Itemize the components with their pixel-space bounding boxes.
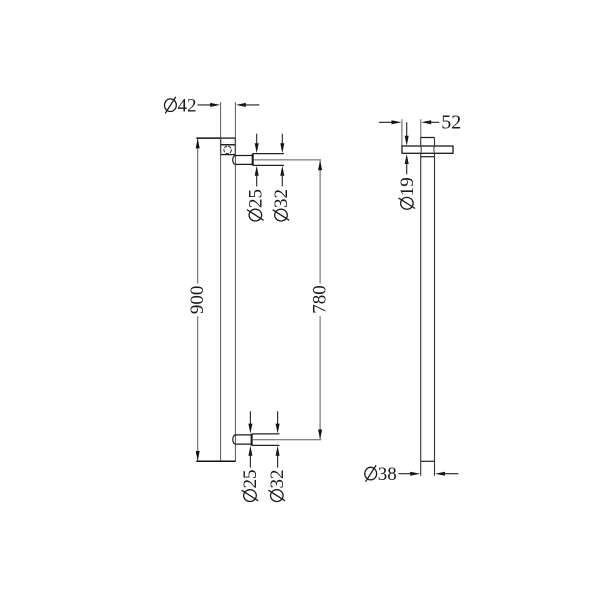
svg-text:38: 38 — [378, 464, 397, 485]
wall plate flange rectangle — [221, 138, 236, 145]
dimension 780 down arrowhead — [318, 430, 322, 440]
top arm phi25 top edge — [235, 155, 252, 157]
bottom arm phi25 down arrowhead — [248, 424, 252, 434]
900 top extension line — [196, 137, 220, 139]
bottom arm phi32 down arrow shaft — [277, 411, 279, 428]
bottom arm phi32 bottom edge — [252, 444, 280, 446]
bottom arm centre line / 780 bottom extension — [252, 439, 322, 441]
top arm rounded end cap — [233, 156, 236, 165]
svg-text:25: 25 — [240, 470, 261, 489]
bar-arm intersection arc right — [433, 146, 436, 153]
mounting arm outline — [402, 146, 453, 153]
svg-text:780: 780 — [310, 285, 331, 314]
dimension phi42 left arrowhead — [210, 103, 220, 107]
top arm phi25 up arrow shaft — [256, 172, 258, 187]
dimension 900 up arrowhead — [196, 138, 200, 148]
dimension phi42 left extension line — [220, 102, 222, 138]
rail right edge — [234, 138, 236, 461]
phi19 down arrowhead — [405, 136, 409, 146]
phi19 down arrow shaft — [406, 122, 408, 140]
dimension 780 up arrowhead — [318, 160, 322, 170]
bottom arm rounded end cap — [233, 435, 236, 444]
top arm phi32 down arrowhead — [280, 143, 284, 153]
phi19 label — [397, 177, 418, 209]
dimension 900 down arrowhead — [196, 451, 200, 461]
bottom arm phi32 top edge — [252, 433, 280, 435]
bottom arm phi32 label — [267, 470, 288, 502]
dimension phi38 left arrowhead — [410, 472, 420, 476]
dimension 52 left tail line — [379, 121, 396, 123]
top arm phi25 label — [246, 189, 267, 221]
rail left edge — [220, 138, 222, 461]
bottom arm phi25 down arrow shaft — [249, 411, 251, 428]
rail bottom line (also 900 bottom extension line) — [196, 460, 235, 462]
bar lower joint line — [421, 460, 435, 462]
bottom arm phi25 up arrow shaft — [249, 452, 251, 468]
collar bottom line — [421, 156, 435, 158]
dimension 52 left arrowhead — [392, 120, 402, 124]
top arm centre line / 780 top extension — [253, 159, 321, 161]
bar-arm intersection arc left — [420, 146, 423, 153]
svg-text:32: 32 — [271, 189, 292, 208]
top arm phi25 up arrowhead — [255, 166, 259, 176]
top arm phi32 top edge — [253, 153, 284, 155]
dimension phi42 right extension line — [234, 102, 236, 138]
dimension phi38 right tail line — [442, 473, 459, 475]
svg-text:900: 900 — [187, 286, 208, 315]
bottom arm phi32 up arrowhead — [276, 446, 280, 456]
dimension phi38 left tail line — [399, 473, 415, 475]
top arm phi32 label — [271, 189, 292, 221]
dimension 900 line lower segment — [197, 316, 199, 460]
svg-text:25: 25 — [246, 189, 267, 208]
phi19 up arrow shaft — [406, 160, 408, 174]
bottom arm phi32 down arrowhead — [276, 424, 280, 434]
top arm step shoulder — [252, 154, 254, 166]
bottom arm phi32 up arrow shaft — [277, 452, 279, 468]
dimension phi38 label — [365, 464, 397, 485]
dimension 900 line upper segment — [197, 139, 199, 284]
bracket screw circle — [224, 146, 231, 153]
svg-text:32: 32 — [267, 470, 288, 489]
dimension phi42 right arrowhead — [236, 103, 246, 107]
dimension 780 line lower segment — [319, 316, 321, 439]
phi19 up arrowhead — [405, 154, 409, 164]
svg-text:19: 19 — [397, 177, 418, 196]
top arm phi32 bottom edge — [253, 164, 284, 166]
top arm phi25 down arrow shaft — [256, 134, 258, 148]
top arm phi25 down arrowhead — [255, 143, 259, 153]
dimension phi42 text — [165, 95, 197, 116]
bottom arm phi25 up arrowhead — [248, 446, 252, 456]
dimension 780 line upper segment — [319, 161, 321, 284]
dimension 52 right arrowhead — [421, 120, 431, 124]
dimension phi42 left arrow line — [198, 104, 214, 106]
dimension 52 right tail line — [428, 121, 439, 123]
top arm phi25 bottom edge — [235, 163, 252, 165]
top arm phi32 up arrow shaft — [281, 172, 283, 187]
vertical bar left edge upper — [420, 138, 422, 147]
dimension 52 left extension line — [401, 119, 403, 146]
vertical bar right edge lower — [434, 153, 436, 475]
vertical bar top end line — [421, 137, 435, 139]
dimension phi38 right arrowhead — [435, 472, 445, 476]
bottom arm phi25 label — [240, 470, 261, 502]
bottom arm phi25 bottom edge — [235, 443, 251, 445]
svg-text:52: 52 — [441, 111, 461, 133]
bottom arm phi25 top edge — [235, 434, 251, 436]
top arm phi32 up arrowhead — [280, 166, 284, 176]
dimension 52 right extension line — [420, 119, 422, 137]
svg-text:42: 42 — [178, 95, 197, 116]
dimension phi42 right tail line — [243, 104, 260, 106]
bottom arm step shoulder — [251, 434, 253, 446]
bracket box rectangle — [221, 145, 236, 155]
vertical bar right edge upper — [434, 138, 436, 147]
vertical bar left edge lower — [420, 153, 422, 475]
top arm phi32 down arrow shaft — [281, 134, 283, 148]
